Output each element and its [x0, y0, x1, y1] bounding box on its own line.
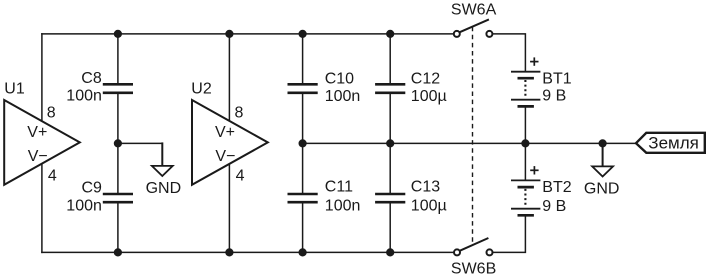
svg-text:C11: C11: [325, 179, 353, 196]
wire C13 column bottom: [389, 204, 391, 253]
svg-text:GND: GND: [146, 180, 182, 197]
wire left GND stub horizontal: [118, 142, 162, 144]
battery BT1: [511, 57, 572, 106]
wire mid rail to BT2: [524, 143, 526, 179]
svg-text:100n: 100n: [325, 198, 361, 215]
junction C9 bottom: [114, 248, 122, 256]
svg-text:GND: GND: [584, 180, 620, 197]
svg-text:8: 8: [47, 104, 56, 121]
capacitor C10: [288, 71, 361, 105]
svg-text:8: 8: [235, 104, 244, 121]
wire BT1 to mid rail: [524, 108, 526, 144]
wire top rail: [42, 33, 453, 35]
junction C8 top: [114, 30, 122, 38]
wire top rail right segment to BT1: [493, 34, 525, 71]
capacitor C12: [375, 71, 447, 105]
junction C11 bottom: [299, 248, 307, 256]
svg-text:C13: C13: [411, 179, 440, 196]
capacitor C9: [66, 179, 133, 214]
svg-text:BT2: BT2: [542, 179, 571, 196]
junction U2 bottom: [225, 248, 233, 256]
junction C8-C9 mid: [114, 139, 122, 147]
svg-text:SW6A: SW6A: [451, 2, 497, 19]
svg-text:100n: 100n: [66, 197, 102, 214]
wire C9 column bottom: [117, 204, 119, 253]
junction U2 top: [225, 30, 233, 38]
wire mid rail to ground flag: [303, 142, 636, 144]
switch SW6B: [451, 238, 496, 278]
wire C12 column top: [389, 34, 391, 83]
wire C8 column top: [117, 34, 119, 83]
svg-text:V+: V+: [215, 124, 235, 141]
svg-text:SW6B: SW6B: [451, 261, 496, 278]
svg-text:100n: 100n: [325, 88, 361, 105]
svg-text:100n: 100n: [66, 88, 102, 105]
svg-text:U1: U1: [4, 81, 25, 98]
svg-text:C12: C12: [411, 71, 440, 88]
svg-text:U2: U2: [191, 81, 212, 98]
wire U2 vertical: [228, 34, 230, 253]
switch SW6A: [451, 2, 497, 37]
svg-text:9 В: 9 В: [542, 87, 566, 104]
junction C10 top: [299, 30, 307, 38]
ground GND left: [146, 166, 182, 197]
svg-text:V+: V+: [27, 124, 47, 141]
svg-text:100µ: 100µ: [411, 88, 447, 105]
wire C10 column top: [302, 34, 304, 83]
svg-text:Земля: Земля: [648, 133, 699, 152]
svg-text:4: 4: [236, 168, 245, 185]
capacitor C8: [66, 70, 133, 105]
wire C11 column bottom: [302, 204, 304, 253]
battery BT2: [511, 166, 572, 215]
svg-text:9 В: 9 В: [542, 198, 566, 215]
capacitor C11: [288, 179, 361, 215]
svg-text:C10: C10: [325, 71, 354, 88]
svg-text:C9: C9: [82, 179, 103, 196]
ground GND right: [584, 166, 620, 197]
junction C13 bottom: [386, 248, 394, 256]
junction battery mid: [521, 139, 529, 147]
svg-text:100µ: 100µ: [411, 198, 447, 215]
wire C8-C9 column middle: [117, 94, 119, 193]
junction C12 mid: [386, 139, 394, 147]
wire right GND stub: [602, 143, 604, 166]
wire C10-C11 column middle: [302, 94, 304, 193]
wire bottom rail: [42, 251, 453, 253]
svg-text:C8: C8: [81, 70, 102, 87]
wire left vertical through U1: [41, 34, 43, 253]
node flag Земля: [636, 133, 705, 153]
junction C10 mid: [299, 139, 307, 147]
svg-text:V−: V−: [215, 148, 235, 165]
svg-text:V−: V−: [28, 148, 48, 165]
svg-text:4: 4: [48, 168, 57, 185]
junction GND right mid: [599, 139, 607, 147]
op-amp U2: [191, 81, 267, 185]
wire left GND stub vertical: [161, 143, 163, 165]
junction C12 top: [386, 30, 394, 38]
wire C12-C13 column middle: [389, 94, 391, 193]
wire bottom rail right segment from SW6B to BT2: [493, 217, 525, 253]
op-amp U1: [4, 81, 80, 185]
svg-text:BT1: BT1: [542, 71, 571, 88]
switch gang dashed link: [472, 27, 474, 245]
capacitor C13: [375, 179, 447, 215]
